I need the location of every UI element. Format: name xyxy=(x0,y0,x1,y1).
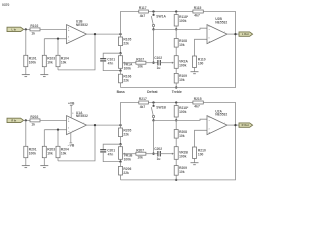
resistor R101 100k xyxy=(24,29,37,74)
potentiometer VR1A 100k bass xyxy=(119,53,134,70)
resistor R203 10k xyxy=(42,130,55,166)
capacitor C201 47n xyxy=(100,144,120,161)
power -VB pin 4 of U1A xyxy=(68,130,75,147)
resistor R202 1k xyxy=(30,115,40,126)
wire U2B output xyxy=(227,33,239,35)
svg-text:1k: 1k xyxy=(31,31,35,35)
junction bass pot bottom xyxy=(119,160,121,162)
wire R07 to C02 xyxy=(146,62,158,64)
junction bass pot bottom xyxy=(119,69,121,71)
wire U1B output xyxy=(87,33,121,35)
wire U2A output xyxy=(227,124,239,126)
wire R202 to op-amp + input xyxy=(40,119,67,121)
resistor R108 10k xyxy=(174,29,187,55)
wire feedback loop xyxy=(58,125,95,161)
svg-text:NE5532: NE5532 xyxy=(215,113,227,117)
svg-text:10k: 10k xyxy=(47,152,53,156)
svg-text:R215: R215 xyxy=(194,97,202,101)
svg-text:R107: R107 xyxy=(136,57,144,61)
junction switch-lower rail xyxy=(152,28,154,30)
junction bass pot top xyxy=(119,52,121,54)
switch SW1B defeat xyxy=(151,103,166,121)
resistor R204 10k xyxy=(56,130,69,161)
svg-text:R217: R217 xyxy=(139,97,147,101)
op-amp U1B NE5532 xyxy=(67,20,88,44)
wire feedback loop xyxy=(58,34,95,70)
svg-text:4k7: 4k7 xyxy=(140,14,146,18)
resistor R118 100k xyxy=(174,12,189,30)
resistor R208 10k xyxy=(174,120,187,146)
wire input tag to node xyxy=(24,28,30,30)
junction wiper row node xyxy=(152,62,154,64)
ground under R203 xyxy=(40,166,48,168)
svg-text:NE5532: NE5532 xyxy=(215,20,227,24)
resistor R210 100 xyxy=(193,130,208,162)
wire switch column down to pot wiper row xyxy=(153,29,155,62)
svg-text:10k: 10k xyxy=(47,61,53,65)
svg-text:3: 3 xyxy=(209,128,210,130)
svg-text:22k: 22k xyxy=(123,132,129,136)
junction feedback tap xyxy=(94,124,96,126)
junction input node xyxy=(25,119,27,121)
svg-text:C202: C202 xyxy=(154,147,162,151)
junction wiper row node xyxy=(152,153,154,155)
svg-text:5: 5 xyxy=(209,37,210,39)
junction input node xyxy=(25,28,27,30)
svg-text:5: 5 xyxy=(68,27,69,29)
svg-text:2: 2 xyxy=(209,117,210,119)
wire switch column down to pot wiper row xyxy=(153,120,155,153)
svg-text:100k: 100k xyxy=(179,64,187,68)
wire R102 to op-amp + input xyxy=(40,28,67,30)
node L In input tag xyxy=(7,27,24,31)
wire top rail left xyxy=(121,103,139,126)
svg-text:1u: 1u xyxy=(157,157,161,161)
resistor R104 10k xyxy=(56,39,69,70)
wire top rail middle xyxy=(148,11,193,13)
svg-text:+VB: +VB xyxy=(68,101,75,105)
svg-text:R Out: R Out xyxy=(242,123,249,127)
resistor R106 22k xyxy=(119,71,132,88)
svg-text:−VB: −VB xyxy=(68,143,75,147)
svg-text:22k: 22k xyxy=(123,171,129,175)
wire inverting input node xyxy=(44,129,66,131)
svg-text:10k: 10k xyxy=(61,61,67,65)
svg-text:10k: 10k xyxy=(61,152,67,156)
svg-text:4k7: 4k7 xyxy=(194,14,200,18)
junction inverting node xyxy=(57,129,59,131)
resistor R207 10k xyxy=(136,148,146,159)
resistor R105 22k xyxy=(119,34,132,53)
resistor R115 4k7 xyxy=(193,6,203,18)
svg-text:2: 2 xyxy=(68,128,69,130)
svg-text:100k: 100k xyxy=(179,19,187,23)
node R Out output tag xyxy=(239,123,253,127)
capacitor C102 1u xyxy=(154,56,162,70)
svg-text:R102: R102 xyxy=(30,24,38,28)
junction bass pot top xyxy=(119,143,121,145)
wire U1A output xyxy=(87,124,121,126)
svg-text:10k: 10k xyxy=(179,78,185,82)
switch SW1A defeat xyxy=(151,12,166,30)
svg-text:1: 1 xyxy=(224,123,225,125)
svg-text:L Out: L Out xyxy=(242,32,249,36)
svg-text:R207: R207 xyxy=(136,148,144,152)
ground under R210 xyxy=(191,163,199,165)
svg-text:100: 100 xyxy=(198,152,204,156)
potentiometer VR2B 100k treble xyxy=(172,147,189,160)
wire lower rail to op-amp inverting input xyxy=(154,28,208,29)
junction switch-lower rail xyxy=(152,119,154,121)
wire bottom rail to op-amp output xyxy=(121,125,236,180)
svg-text:R In: R In xyxy=(11,118,16,122)
op-amp U2B NE5532 xyxy=(207,17,227,43)
junction rail-R18 xyxy=(175,10,177,12)
resistor R201 100k xyxy=(24,120,37,165)
svg-text:22k: 22k xyxy=(123,41,129,45)
junction R18-lower rail xyxy=(175,119,177,121)
junction rail-switch xyxy=(152,10,154,12)
resistor R205 22k xyxy=(119,125,132,144)
svg-text:0370: 0370 xyxy=(2,3,10,7)
svg-text:Defeat: Defeat xyxy=(147,90,158,94)
svg-text:10k: 10k xyxy=(179,134,185,138)
wire bottom rail to op-amp output xyxy=(121,34,236,87)
ground under R110 xyxy=(191,72,199,74)
wire bass wiper to R07 xyxy=(125,153,136,155)
svg-text:100k: 100k xyxy=(29,152,37,156)
svg-text:6: 6 xyxy=(209,26,210,28)
resistor R215 4k7 xyxy=(193,97,203,109)
ground under R201 xyxy=(22,166,30,168)
svg-text:6: 6 xyxy=(68,37,69,39)
svg-text:1u: 1u xyxy=(157,66,161,70)
svg-text:NE5532: NE5532 xyxy=(76,114,88,118)
junction rail-R18 xyxy=(175,101,177,103)
svg-text:100k: 100k xyxy=(124,157,132,161)
op-amp U1A NE5532 xyxy=(67,111,88,135)
svg-text:47n: 47n xyxy=(108,61,114,65)
wire top rail middle xyxy=(148,102,193,104)
junction output node xyxy=(234,124,236,126)
svg-text:C102: C102 xyxy=(154,56,162,60)
capacitor C202 1u xyxy=(154,147,162,161)
junction buffer output node xyxy=(119,124,121,126)
wire C02 to treble wiper xyxy=(160,153,172,155)
svg-text:R115: R115 xyxy=(194,6,202,10)
resistor R218 100k xyxy=(174,103,189,121)
svg-text:10k: 10k xyxy=(179,43,185,47)
junction buffer output node xyxy=(119,33,121,35)
resistor R209 10k xyxy=(174,159,187,180)
svg-text:100k: 100k xyxy=(179,110,187,114)
resistor R109 10k xyxy=(174,68,187,87)
power +VB pin 8 of U1A xyxy=(68,101,75,118)
svg-text:L In: L In xyxy=(12,27,17,31)
wire inverting input node xyxy=(44,38,66,40)
junction feedback tap xyxy=(94,33,96,35)
wire lower rail to op-amp inverting input xyxy=(154,119,208,120)
capacitor C101 47n xyxy=(100,53,120,70)
svg-text:100: 100 xyxy=(198,61,204,65)
svg-text:4k7: 4k7 xyxy=(140,105,146,109)
svg-text:100k: 100k xyxy=(29,61,37,65)
node L Out output tag xyxy=(239,32,253,36)
junction R09 bottom rail xyxy=(175,179,177,181)
svg-text:10k: 10k xyxy=(137,156,143,160)
svg-text:4k7: 4k7 xyxy=(194,105,200,109)
wire top rail right to output xyxy=(203,12,235,35)
svg-text:1: 1 xyxy=(83,123,84,125)
op-amp U2A NE5532 xyxy=(207,109,227,134)
wire top rail right to output xyxy=(203,103,235,126)
junction R09 bottom rail xyxy=(175,86,177,88)
wire bass wiper to R07 xyxy=(125,62,136,64)
resistor R103 10k xyxy=(42,39,55,75)
svg-text:SW1A: SW1A xyxy=(156,14,166,18)
svg-text:Treble: Treble xyxy=(172,90,182,94)
potentiometer VR2A 100k treble xyxy=(172,56,189,69)
svg-text:Bass: Bass xyxy=(117,90,125,94)
svg-text:R117: R117 xyxy=(139,6,147,10)
svg-text:100k: 100k xyxy=(124,66,132,70)
resistor R206 22k xyxy=(119,162,132,180)
resistor R117 4k7 xyxy=(139,6,149,18)
svg-text:7: 7 xyxy=(224,32,225,34)
ground under R101 xyxy=(22,75,30,77)
svg-text:NE5532: NE5532 xyxy=(76,23,88,27)
node R In input tag xyxy=(7,118,24,122)
svg-text:1k: 1k xyxy=(31,122,35,126)
junction R18-lower rail xyxy=(175,28,177,30)
svg-text:SW1B: SW1B xyxy=(156,105,166,109)
resistor R110 100 xyxy=(193,39,208,71)
resistor R107 10k xyxy=(136,57,146,68)
junction rail-switch xyxy=(152,101,154,103)
svg-text:10k: 10k xyxy=(137,65,143,69)
svg-text:22k: 22k xyxy=(123,79,129,83)
wire R07 to C02 xyxy=(146,153,158,155)
svg-text:47n: 47n xyxy=(108,152,114,156)
junction output node xyxy=(234,33,236,35)
ground under R103 xyxy=(40,75,48,77)
svg-text:7: 7 xyxy=(83,32,84,34)
resistor R102 1k xyxy=(30,24,40,35)
svg-text:10k: 10k xyxy=(179,170,185,174)
junction inverting node xyxy=(57,38,59,40)
svg-text:100k: 100k xyxy=(179,155,187,159)
svg-text:3: 3 xyxy=(68,118,69,120)
wire input tag to node xyxy=(24,119,30,121)
svg-text:8: 8 xyxy=(72,113,73,115)
wire top rail left xyxy=(121,12,139,35)
potentiometer VR1B 100k bass xyxy=(119,144,134,161)
resistor R217 4k7 xyxy=(139,97,149,109)
wire C02 to treble wiper xyxy=(160,62,172,64)
svg-text:R202: R202 xyxy=(30,115,38,119)
